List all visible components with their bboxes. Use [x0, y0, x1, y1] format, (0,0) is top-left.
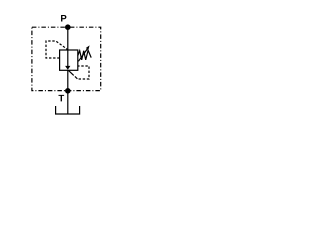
spring (adjustable) — [78, 50, 91, 60]
enclosure boundary (dash-dot box) — [32, 27, 101, 90]
port T label — [59, 95, 65, 102]
port P label — [61, 15, 66, 22]
flow path arrow inside valve — [67, 50, 69, 66]
valve body V1 (square envelope) — [60, 50, 78, 70]
adjustment arrow — [78, 49, 87, 61]
tank symbol — [56, 106, 80, 114]
drain line (dashed) — [69, 71, 78, 79]
wire P to valve — [67, 27, 69, 50]
pilot line (dashed) — [46, 41, 68, 58]
node T (junction dot) — [65, 88, 71, 94]
node P (junction dot) — [65, 24, 71, 30]
wire valve to tank — [67, 70, 69, 114]
